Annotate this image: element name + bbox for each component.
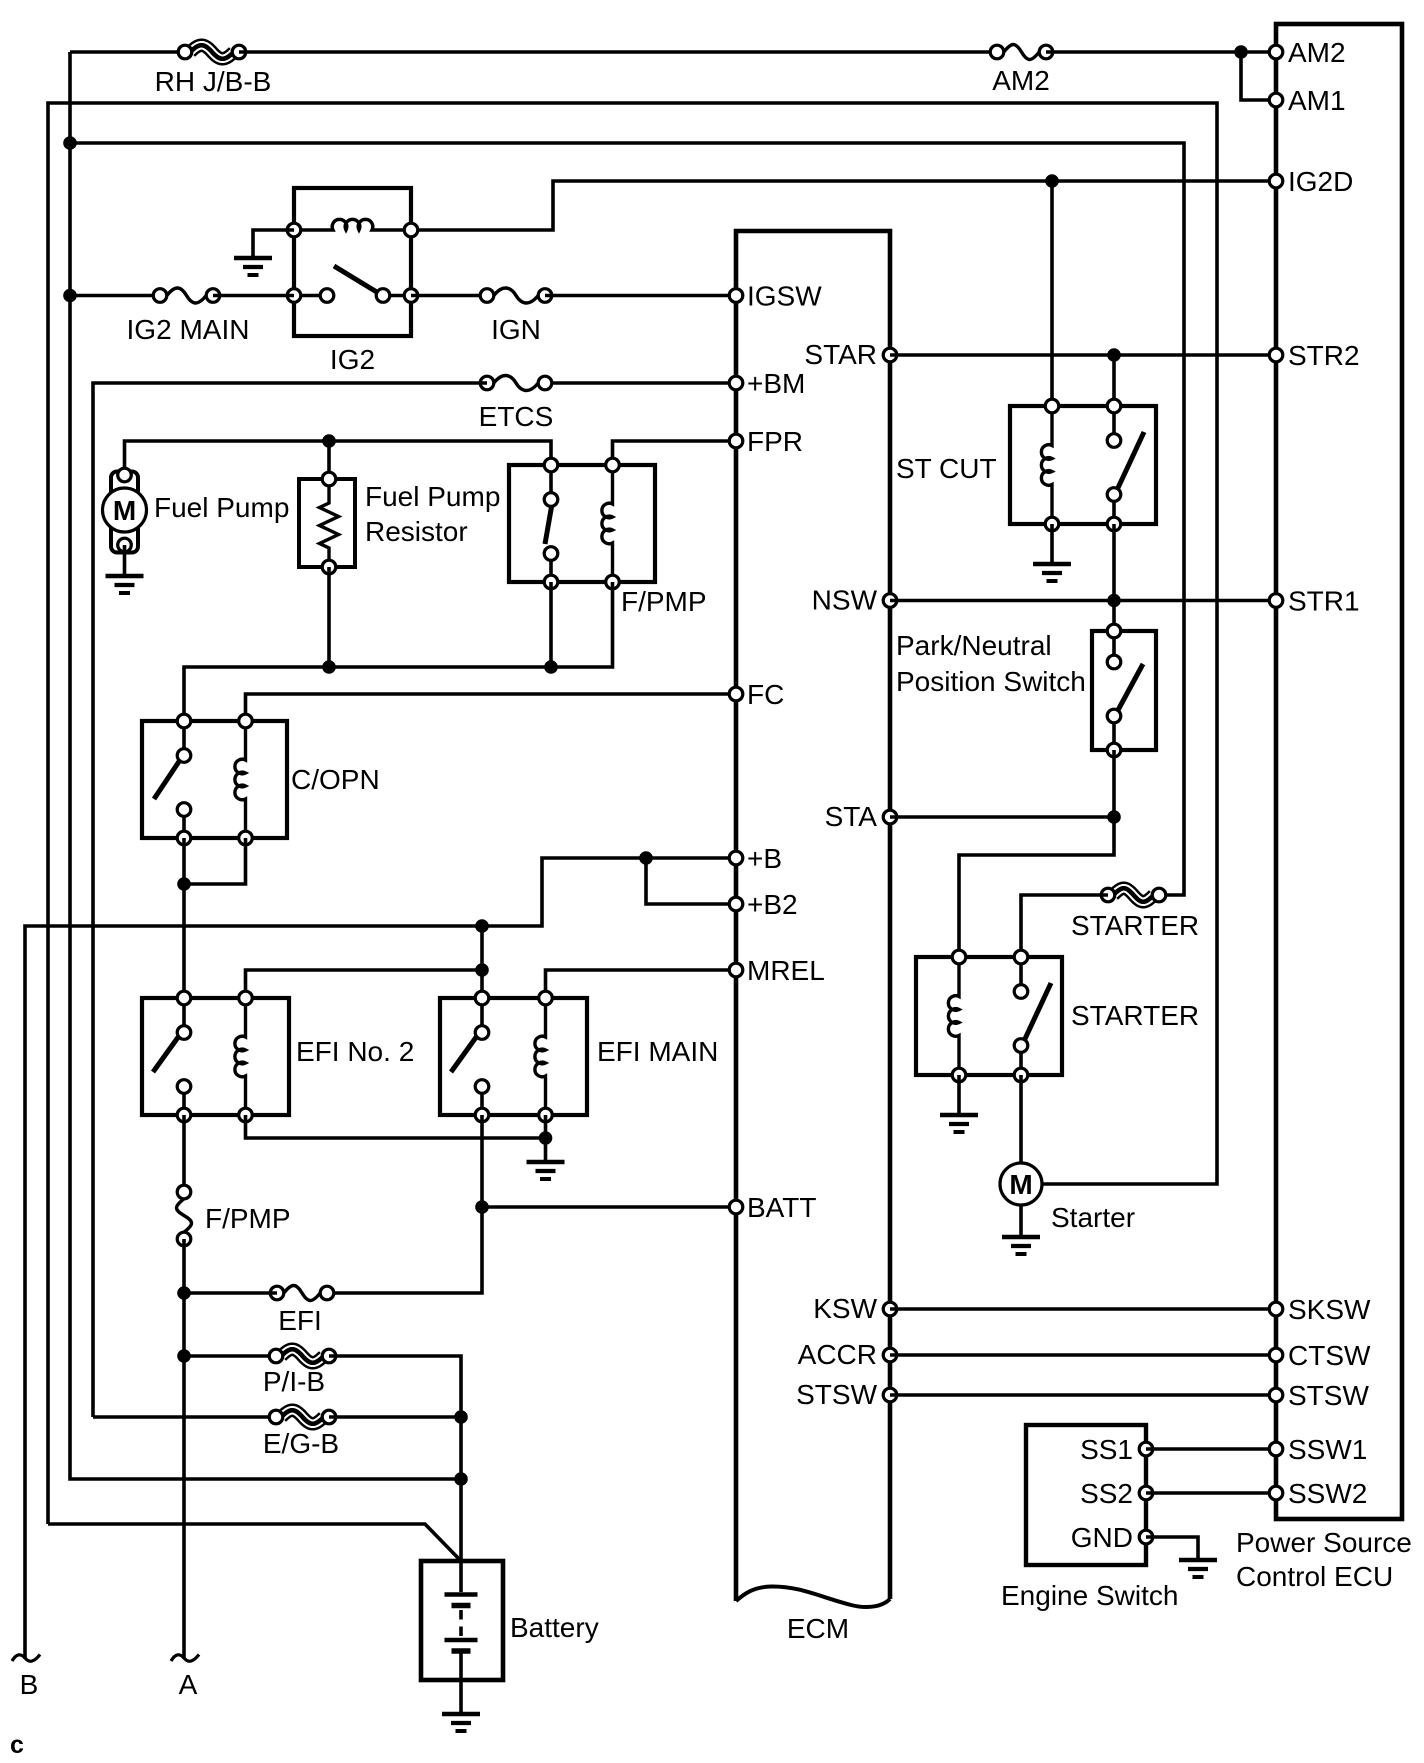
label C/OPN	[291, 764, 380, 795]
Power Source Control ECU box	[1276, 24, 1402, 1519]
svg-text:P/I-B: P/I-B	[263, 1366, 325, 1397]
svg-text:IGSW: IGSW	[747, 281, 822, 312]
wire IGN fuse to IGSW pin	[545, 294, 736, 298]
svg-text:STR2: STR2	[1288, 340, 1360, 371]
wire +B rail	[25, 858, 736, 1659]
pin STSW of ECM	[796, 1379, 897, 1410]
pin GND of engine switch	[1071, 1522, 1153, 1553]
svg-text:FPR: FPR	[747, 426, 803, 457]
fusible link STARTER	[1071, 885, 1199, 941]
svg-text:EFI MAIN: EFI MAIN	[597, 1036, 718, 1067]
pin SKSW of Power Source Control ECU	[1269, 1294, 1371, 1325]
pin SSW2 of Power Source Control ECU	[1269, 1478, 1367, 1509]
wire AM2 fuse to AM2 pin	[1046, 50, 1276, 54]
relay C/OPN	[142, 721, 287, 838]
svg-text:Fuel Pump: Fuel Pump	[154, 492, 289, 523]
junction fuel pump resistor top	[322, 434, 336, 448]
junction BATT branch	[475, 1200, 489, 1214]
svg-text:SS1: SS1	[1080, 1434, 1133, 1465]
pin SSW1 of Power Source Control ECU	[1269, 1434, 1367, 1465]
pin SS2 of engine switch	[1080, 1478, 1153, 1509]
wire STSW pin to STSW pin	[890, 1393, 1276, 1397]
svg-text:ACCR: ACCR	[798, 1339, 877, 1370]
switch Park/Neutral Position Switch	[1092, 624, 1156, 757]
wire branch to +B2 pin	[646, 858, 736, 904]
junction y1479 / battery rail	[454, 1472, 468, 1486]
junction +B rail to EFI MAIN	[475, 919, 489, 933]
svg-text:Position Switch: Position Switch	[896, 666, 1086, 697]
wire +B rail down to EFI MAIN switch	[480, 926, 484, 998]
switch of relay F/PMP	[544, 458, 558, 589]
label STARTER relay	[1071, 1000, 1199, 1031]
wire C/OPN coil bottom join	[184, 838, 246, 884]
switch of relay EFI No. 2	[153, 991, 191, 1122]
svg-text:Park/Neutral: Park/Neutral	[896, 630, 1052, 661]
pin AM2 of Power Source Control ECU	[1269, 37, 1345, 68]
relay EFI No. 2	[142, 998, 289, 1115]
pin STSW of Power Source Control ECU	[1269, 1380, 1369, 1411]
wire bus x48 to battery diagonal	[48, 1524, 461, 1561]
junction EFI No.2 coil branch	[475, 963, 489, 977]
label Battery	[510, 1612, 599, 1643]
svg-text:STSW: STSW	[1288, 1380, 1369, 1411]
coil of relay ST CUT	[1041, 399, 1058, 531]
svg-text:Fuel Pump: Fuel Pump	[365, 481, 500, 512]
svg-text:STARTER: STARTER	[1071, 910, 1199, 941]
svg-text:SKSW: SKSW	[1288, 1294, 1371, 1325]
wire junction line y667	[184, 582, 613, 721]
svg-text:+BM: +BM	[747, 368, 805, 399]
svg-text:MREL: MREL	[747, 955, 825, 986]
wire IG2 coil to ground	[253, 230, 294, 256]
pin IGSW of ECM	[729, 281, 822, 312]
motor Starter	[1000, 1163, 1042, 1205]
ground at ST CUT coil	[1033, 524, 1071, 581]
svg-text:+B: +B	[747, 843, 782, 874]
connector break B	[12, 1655, 40, 1701]
svg-text:FC: FC	[747, 679, 784, 710]
svg-text:STA: STA	[825, 801, 878, 832]
svg-text:IG2D: IG2D	[1288, 166, 1353, 197]
svg-text:Engine Switch: Engine Switch	[1001, 1580, 1178, 1611]
pin STR1 of Power Source Control ECU	[1269, 586, 1359, 617]
pin NSW of ECM	[812, 585, 897, 616]
ground at EFI relay coils	[527, 1115, 565, 1179]
wire x93 bus to E/G-B link	[93, 1415, 276, 1419]
svg-text:A: A	[179, 1669, 198, 1700]
wire P/I-B link to battery rail	[329, 1356, 461, 1561]
pin BATT of ECM	[729, 1192, 816, 1223]
wire branch to AM1 pin	[1241, 52, 1276, 100]
switch of relay STARTER	[1014, 950, 1051, 1082]
switch of relay IG2	[287, 266, 418, 302]
wire SS1 to SSW1 pin	[1146, 1447, 1276, 1451]
svg-text:EFI No. 2: EFI No. 2	[296, 1036, 414, 1067]
svg-text:E/G-B: E/G-B	[263, 1428, 339, 1459]
wire RH J/B-B to AM2 fuse	[239, 50, 997, 54]
label Starter	[1051, 1202, 1135, 1233]
wire bus A to break A	[182, 1293, 186, 1659]
wire AM2 feed from fusible link to AM2 pin	[70, 50, 185, 54]
fuse ETCS	[479, 376, 554, 433]
fuse EFI	[270, 1286, 334, 1337]
wire ETCS to E/G-B bus x93	[93, 383, 487, 1417]
wire junction to park-neutral switch	[1112, 601, 1116, 632]
fuse IGN	[480, 288, 552, 345]
wire EFI No.2 switch to F/PMP fuse	[182, 1115, 186, 1192]
junction bus x70 / IG2 MAIN line	[63, 289, 77, 303]
svg-text:SSW1: SSW1	[1288, 1434, 1367, 1465]
svg-text:M: M	[1009, 1169, 1032, 1200]
svg-text:BATT: BATT	[747, 1192, 816, 1223]
wire MREL pin to EFI MAIN coil	[546, 970, 737, 998]
svg-text:KSW: KSW	[813, 1293, 877, 1324]
junction STR1 / park-neutral switch	[1107, 594, 1121, 608]
junction EFI MAIN coil ground	[539, 1131, 553, 1145]
svg-text:SSW2: SSW2	[1288, 1478, 1367, 1509]
pin CTSW of Power Source Control ECU	[1269, 1340, 1371, 1371]
coil of relay STARTER	[948, 950, 965, 1082]
svg-text:CTSW: CTSW	[1288, 1340, 1371, 1371]
wire STARTER link to starter relay switch	[1021, 895, 1108, 957]
wire SS2 to SSW2 pin	[1146, 1491, 1276, 1495]
junction resistor bottom	[322, 660, 336, 674]
svg-text:AM2: AM2	[1288, 37, 1346, 68]
wire F/PMP fuse to EFI junction	[182, 1239, 186, 1293]
page label c	[10, 1731, 24, 1759]
wire F/PMP switch to junction line	[549, 582, 553, 667]
svg-text:Battery: Battery	[510, 1612, 599, 1643]
svg-text:IG2 MAIN: IG2 MAIN	[127, 314, 250, 345]
junction EFI fuse / bus A	[177, 1286, 191, 1300]
wire KSW pin to SKSW pin	[890, 1307, 1276, 1311]
svg-text:F/PMP: F/PMP	[205, 1203, 291, 1234]
pin AM1 of Power Source Control ECU	[1269, 85, 1345, 116]
relay STARTER	[916, 957, 1062, 1075]
wire branch to BATT pin	[482, 1205, 736, 1209]
svg-text:RH J/B-B: RH J/B-B	[155, 66, 272, 97]
junction C/OPN outputs	[177, 877, 191, 891]
pin FPR of ECM	[729, 426, 803, 457]
junction IG2D / ST CUT coil	[1045, 174, 1059, 188]
svg-text:STR1: STR1	[1288, 586, 1360, 617]
wire resistor top to line	[327, 441, 331, 479]
svg-text:GND: GND	[1071, 1522, 1133, 1553]
svg-text:NSW: NSW	[812, 585, 878, 616]
junction bus x70 / y143 line	[63, 136, 77, 150]
ground at STARTER relay coil	[940, 1075, 978, 1132]
svg-text:AM1: AM1	[1288, 85, 1346, 116]
wire STA pin to junction	[890, 815, 1114, 819]
switch of relay EFI MAIN	[451, 991, 489, 1122]
coil of relay EFI No. 2	[235, 991, 252, 1122]
wire IG2D junction down to ST CUT coil	[1050, 181, 1054, 407]
svg-text:B: B	[20, 1669, 39, 1700]
relay EFI MAIN	[440, 998, 587, 1115]
junction AM2/AM1 branch	[1234, 45, 1248, 59]
wire ACCR pin to CTSW pin	[890, 1353, 1276, 1357]
pin FC of ECM	[729, 679, 784, 710]
wire C/OPN bottom join	[182, 838, 186, 884]
junction +B2 branch	[639, 851, 653, 865]
wire starter relay switch to starter motor	[1019, 1075, 1023, 1163]
pin STR2 of Power Source Control ECU	[1269, 340, 1359, 371]
battery Battery	[421, 1561, 503, 1680]
wire IG2 switch to IGN fuse	[411, 294, 487, 298]
label EFI MAIN	[597, 1036, 718, 1067]
fusible link P/I-B	[263, 1346, 336, 1397]
fuse F/PMP	[177, 1185, 291, 1246]
wire FC pin to C/OPN coil	[246, 694, 737, 721]
wire EFI No.2 coil to common ground	[246, 1115, 546, 1138]
fuse IG2 MAIN	[127, 288, 250, 345]
label Park/Neutral Position Switch	[896, 630, 1086, 697]
pin MREL of ECM	[729, 955, 825, 986]
fuse AM2	[990, 45, 1053, 97]
svg-text:EFI: EFI	[278, 1305, 322, 1336]
svg-text:AM2: AM2	[992, 65, 1050, 96]
pin KSW of ECM	[813, 1293, 897, 1324]
wire STA junction to starter relay coil	[959, 817, 1114, 957]
wire EFI fuse to bus A	[184, 1291, 277, 1295]
wire E/G-B link to battery rail	[329, 1415, 461, 1419]
svg-text:Power Source: Power Source	[1236, 1527, 1412, 1558]
wire fuel pump line	[125, 441, 552, 475]
wire STAR pin to STR2 pin	[890, 353, 1276, 357]
wire EFI MAIN switch to BATT and EFI fuse	[327, 1115, 482, 1293]
coil of relay IG2	[287, 219, 418, 236]
label ECM	[787, 1613, 849, 1644]
wire ST CUT switch to junction	[1112, 524, 1116, 601]
wire bus to IG2 MAIN fuse	[70, 294, 160, 298]
wire branch to EFI No.2 coil	[246, 970, 483, 998]
label Fuel Pump Resistor	[365, 481, 500, 547]
pin +BM of ECM	[729, 368, 805, 399]
junction STR2 / ST CUT switch	[1107, 348, 1121, 362]
svg-text:ETCS: ETCS	[479, 401, 554, 432]
wire FPR pin to F/PMP relay coil	[613, 441, 737, 465]
wire AM1 bus y103 to starter motor	[48, 103, 1217, 1524]
coil of relay F/PMP	[602, 458, 619, 589]
switch of relay ST CUT	[1107, 399, 1144, 531]
wire IG2 MAIN fuse to IG2 switch	[213, 294, 294, 298]
svg-text:STAR: STAR	[804, 339, 877, 370]
label Fuel Pump	[154, 492, 289, 523]
wire IG2 coil to IG2D pin	[412, 181, 1276, 230]
wire park-neutral switch to STA junction	[1112, 750, 1116, 817]
wire bus x70 down to battery line	[70, 52, 461, 1479]
svg-text:STSW: STSW	[796, 1379, 877, 1410]
pin STAR of ECM	[804, 339, 896, 370]
wire junction down to ST CUT switch	[1112, 355, 1116, 407]
resistor Fuel Pump Resistor	[299, 472, 355, 574]
svg-text:ST CUT: ST CUT	[896, 453, 997, 484]
fusible link RH J/B-B	[155, 42, 272, 97]
svg-text:SS2: SS2	[1080, 1478, 1133, 1509]
wire resistor bottom to junction line	[327, 567, 331, 667]
label EFI No. 2	[296, 1036, 414, 1067]
svg-text:STARTER: STARTER	[1071, 1000, 1199, 1031]
svg-text:IGN: IGN	[491, 314, 541, 345]
wire +BM pin to ETCS fuse	[545, 381, 736, 385]
pin STA of ECM	[825, 801, 897, 832]
wire bus A down to EFI No.2 relay	[182, 884, 186, 998]
label Engine Switch	[1001, 1580, 1178, 1611]
fusible link E/G-B	[263, 1407, 339, 1459]
motor Fuel Pump	[103, 468, 147, 552]
pin +B2 of ECM	[729, 889, 797, 920]
svg-text:ECM: ECM	[787, 1613, 849, 1644]
junction F/PMP switch bottom	[544, 660, 558, 674]
junction E/G-B / battery rail	[454, 1410, 468, 1424]
svg-text:C/OPN: C/OPN	[291, 764, 380, 795]
pin SS1 of engine switch	[1080, 1434, 1153, 1465]
label IG2	[330, 344, 375, 375]
switch Engine Switch	[1026, 1425, 1146, 1565]
relay IG2	[294, 188, 411, 336]
svg-text:Starter: Starter	[1051, 1202, 1135, 1233]
ground at starter motor	[1002, 1205, 1040, 1254]
ground at IG2 coil	[234, 258, 272, 275]
switch of relay C/OPN	[154, 714, 191, 845]
coil of relay EFI MAIN	[535, 991, 552, 1122]
svg-text:Resistor: Resistor	[365, 516, 468, 547]
svg-text:F/PMP: F/PMP	[621, 586, 707, 617]
relay ST CUT	[1010, 406, 1156, 524]
junction STA / starter relay coil	[1107, 810, 1121, 824]
relay F/PMP	[509, 465, 655, 582]
ground at engine switch	[1146, 1537, 1217, 1577]
svg-text:c: c	[10, 1731, 24, 1759]
connector break A	[171, 1655, 199, 1701]
wire bus A to P/I-B link	[184, 1354, 276, 1358]
label Power Source Control ECU	[1236, 1527, 1412, 1592]
ground at battery	[442, 1680, 480, 1731]
svg-text:M: M	[113, 495, 136, 526]
wire NSW pin to STR1 pin	[890, 599, 1276, 603]
svg-text:+B2: +B2	[747, 889, 798, 920]
ECM box	[736, 231, 890, 1607]
ground at fuel pump	[106, 545, 144, 593]
coil of relay C/OPN	[235, 714, 252, 845]
pin +B of ECM	[729, 843, 782, 874]
svg-text:Control ECU: Control ECU	[1236, 1561, 1393, 1592]
wire y143 line to STARTER fusible link	[70, 143, 1184, 895]
label F/PMP relay	[621, 586, 707, 617]
pin ACCR of ECM	[798, 1339, 897, 1370]
label ST CUT	[896, 453, 997, 484]
pin IG2D of Power Source Control ECU	[1269, 166, 1353, 197]
junction P/I-B / bus A	[177, 1349, 191, 1363]
svg-text:IG2: IG2	[330, 344, 375, 375]
